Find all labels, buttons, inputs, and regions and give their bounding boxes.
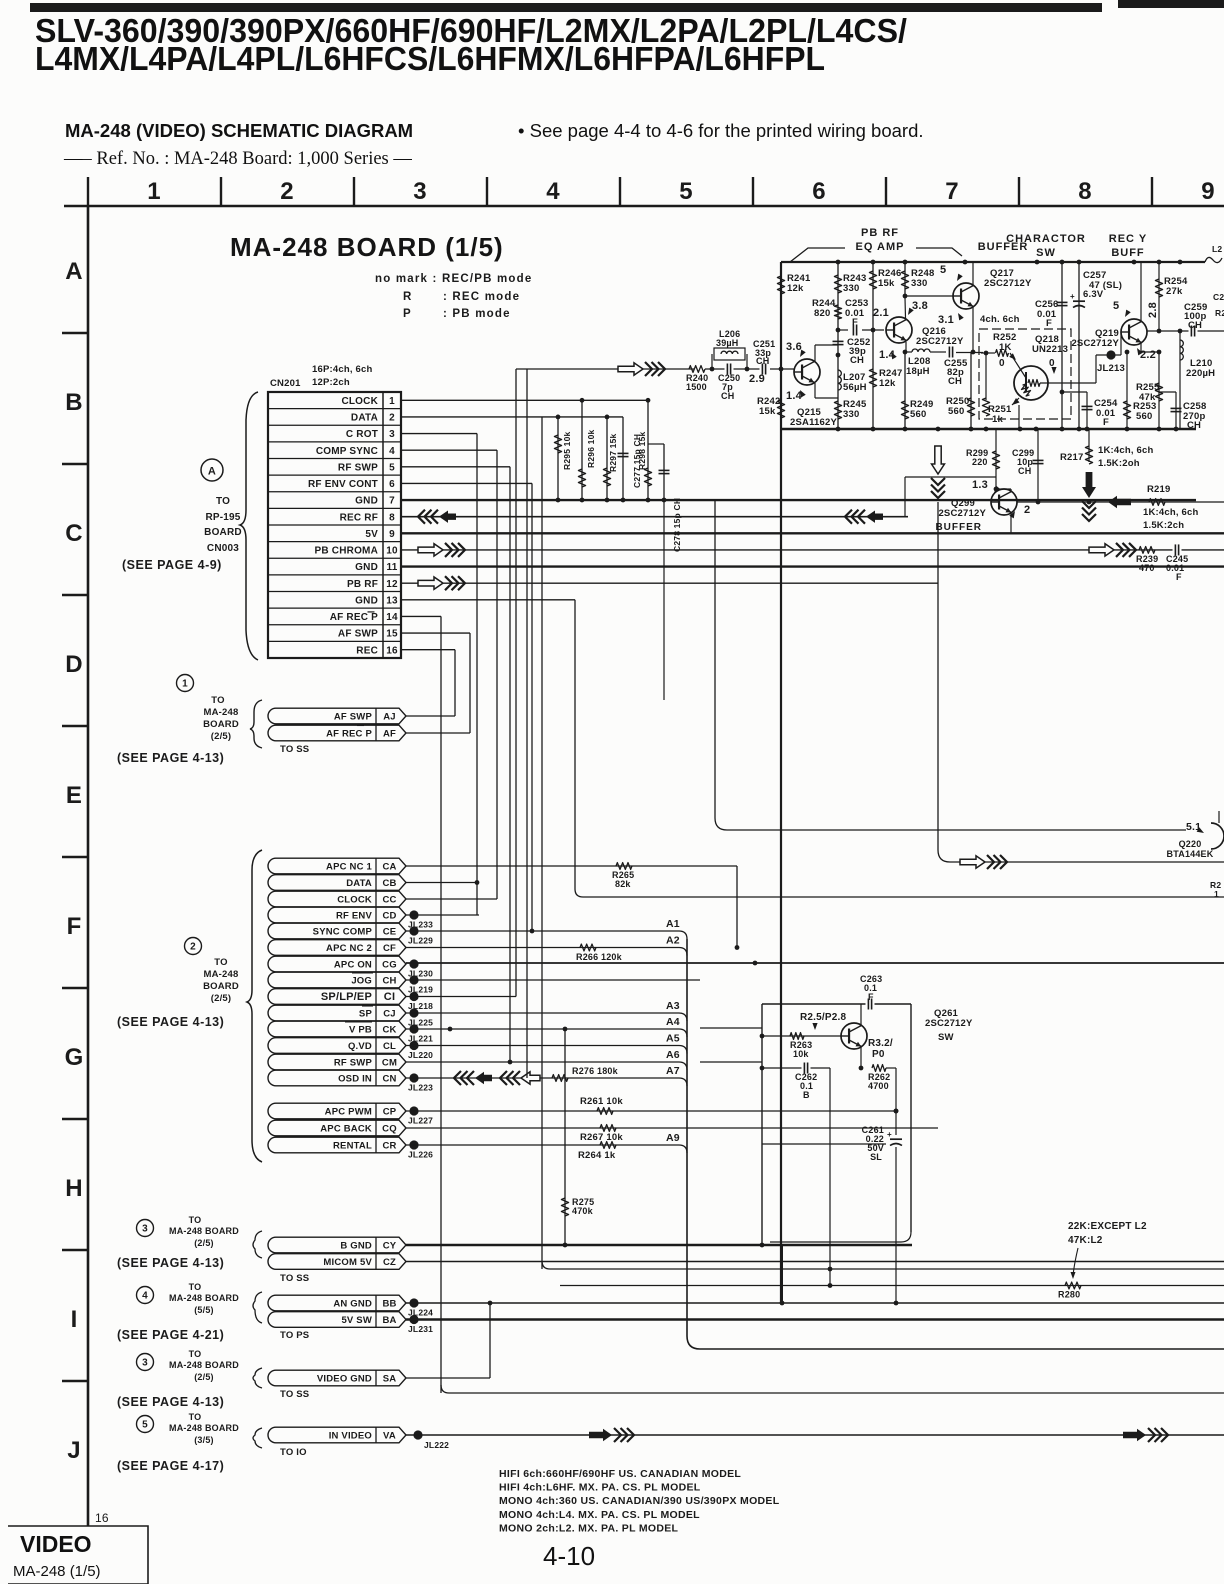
wire OSD IN CN / A7 bbox=[406, 1077, 679, 1079]
CN201 row divider 15 bbox=[268, 640, 401, 642]
wire SA vertical up bbox=[489, 1303, 491, 1378]
arrow IN VIDEO black right 2 bbox=[1123, 1429, 1146, 1441]
connector pill Q.VD CL bbox=[268, 1038, 406, 1054]
svg-text:D: D bbox=[65, 651, 83, 678]
svg-text:F: F bbox=[67, 913, 82, 940]
svg-text:2: 2 bbox=[190, 942, 196, 953]
svg-text:15k: 15k bbox=[759, 406, 776, 417]
capacitor C253 bbox=[851, 329, 860, 332]
svg-text:APC NC 1: APC NC 1 bbox=[326, 862, 372, 873]
svg-text:CG: CG bbox=[382, 960, 397, 971]
CN201 row divider 8 bbox=[268, 524, 401, 526]
row tick G/H bbox=[62, 1118, 88, 1120]
wire Q299 collector to 5V rail bbox=[1010, 513, 1012, 533]
connector pill OSD IN CN bbox=[268, 1070, 406, 1086]
resistor R248 bbox=[901, 271, 908, 289]
svg-text:CL: CL bbox=[383, 1041, 396, 1052]
inductor L206 bbox=[705, 368, 760, 370]
connector pill SYNC COMP CE bbox=[268, 923, 406, 939]
svg-text:5: 5 bbox=[940, 264, 946, 276]
svg-text:(2/5): (2/5) bbox=[194, 1238, 214, 1248]
wire RF SWP CM / A6 bbox=[406, 1061, 679, 1063]
svg-text:16: 16 bbox=[386, 645, 398, 656]
svg-text:L2: L2 bbox=[1212, 244, 1222, 254]
capacitor C277 bbox=[622, 417, 624, 500]
svg-text:CR: CR bbox=[382, 1141, 396, 1152]
svg-text:CH: CH bbox=[1187, 420, 1201, 431]
svg-text:330: 330 bbox=[911, 278, 927, 289]
svg-text:A6: A6 bbox=[666, 1049, 680, 1061]
wire video input y369 bbox=[516, 368, 694, 370]
capacitor C263 bbox=[866, 1003, 875, 1006]
svg-text:HIFI 6ch:660HF/690HF US. CANAD: HIFI 6ch:660HF/690HF US. CANADIAN MODEL bbox=[499, 1468, 741, 1480]
svg-text:(SEE PAGE 4-17): (SEE PAGE 4-17) bbox=[117, 1459, 224, 1473]
svg-text:CN: CN bbox=[382, 1074, 396, 1085]
svg-text:: REC mode: : REC mode bbox=[443, 291, 520, 303]
arrow R219 black left bbox=[1108, 496, 1131, 508]
svg-text:E: E bbox=[66, 782, 82, 809]
capacitor C259 bbox=[1189, 330, 1198, 333]
svg-text:220µH: 220µH bbox=[1186, 368, 1215, 379]
resistor R265 bbox=[616, 863, 632, 870]
resistor R275 bbox=[564, 1029, 566, 1245]
capacitor C261 electrolytic bbox=[890, 1138, 902, 1140]
jumper JL222 bbox=[413, 1430, 422, 1439]
svg-text:(2/5): (2/5) bbox=[211, 731, 232, 742]
column tick 4 bbox=[486, 177, 488, 206]
wire bus y1269 bbox=[542, 1261, 550, 1269]
svg-text:CH: CH bbox=[1188, 320, 1202, 331]
connector pill AF SWP AJ bbox=[268, 708, 406, 724]
svg-text:REC RF: REC RF bbox=[340, 512, 378, 523]
bottom left label box bbox=[8, 1526, 148, 1584]
connector pill SP/LP/EP CI bbox=[268, 989, 406, 1005]
wire RF ENV CD bbox=[406, 914, 479, 916]
arrow input outline right bbox=[618, 363, 643, 375]
svg-text:JL229: JL229 bbox=[408, 936, 433, 946]
svg-text:(3/5): (3/5) bbox=[194, 1435, 214, 1445]
svg-text:5: 5 bbox=[679, 178, 693, 205]
svg-text:2: 2 bbox=[389, 413, 395, 424]
row tick E/F bbox=[62, 856, 88, 858]
resistor R267 bbox=[600, 1125, 616, 1132]
column tick 8 bbox=[1018, 177, 1020, 206]
capacitor C255 bbox=[947, 351, 956, 354]
svg-text:2.1: 2.1 bbox=[873, 307, 889, 319]
wire bus y1393 bbox=[441, 1385, 449, 1393]
svg-text:RP-195: RP-195 bbox=[205, 512, 240, 523]
resistor R247 bbox=[869, 369, 876, 387]
svg-text:MONO 4ch:360 US. CANADIAN/390: MONO 4ch:360 US. CANADIAN/390 US/390PX M… bbox=[499, 1495, 780, 1507]
svg-text:R280: R280 bbox=[1058, 1290, 1080, 1300]
ref circle 5 group6 bbox=[137, 1416, 154, 1433]
wire vertical x762 bbox=[761, 1004, 763, 1245]
svg-text:CH: CH bbox=[948, 376, 962, 387]
svg-text:R298 15k: R298 15k bbox=[637, 431, 647, 470]
svg-text:2: 2 bbox=[1024, 504, 1030, 516]
svg-text:2SC2712Y: 2SC2712Y bbox=[984, 278, 1032, 289]
transistor Q220 partial bbox=[1211, 823, 1224, 849]
svg-text:R296 10k: R296 10k bbox=[586, 429, 596, 468]
svg-text:(5/5): (5/5) bbox=[194, 1305, 214, 1315]
svg-text:F: F bbox=[852, 317, 858, 328]
jumper JL223 bbox=[409, 1073, 418, 1082]
svg-text:8: 8 bbox=[389, 512, 395, 523]
resistor R240 bbox=[689, 366, 705, 373]
svg-text:6: 6 bbox=[812, 178, 826, 205]
wire column x873 bbox=[872, 262, 874, 429]
capacitor C258 bbox=[1171, 407, 1182, 409]
connector pill AF REC P AF bbox=[268, 725, 406, 741]
svg-text:(SEE PAGE 4-9): (SEE PAGE 4-9) bbox=[122, 558, 222, 572]
wire pin14 AF REC P bbox=[401, 615, 441, 617]
svg-text:: PB mode: : PB mode bbox=[443, 308, 511, 320]
svg-text:SW: SW bbox=[938, 1032, 954, 1043]
svg-text:(SEE PAGE 4-13): (SEE PAGE 4-13) bbox=[117, 1256, 224, 1270]
column tick 9 bbox=[1151, 177, 1153, 206]
resistor R297 bbox=[606, 417, 608, 500]
svg-text:14: 14 bbox=[386, 612, 398, 623]
resistor R243 bbox=[834, 275, 841, 293]
CN201 row divider 2 bbox=[268, 424, 401, 426]
svg-text:220: 220 bbox=[972, 457, 988, 467]
svg-text:1.3: 1.3 bbox=[972, 479, 988, 491]
connector pill APC ON CG bbox=[268, 956, 406, 972]
svg-text:5V SW: 5V SW bbox=[341, 1315, 372, 1326]
connector pill APC NC 1 CA bbox=[268, 858, 406, 874]
svg-text:R276 180k: R276 180k bbox=[572, 1066, 619, 1076]
svg-text:3.6: 3.6 bbox=[786, 341, 802, 353]
wire y502 to right bbox=[1017, 501, 1224, 503]
outline arrow down x938 bbox=[937, 502, 939, 850]
svg-text:G: G bbox=[65, 1044, 84, 1071]
svg-text:R261 10k: R261 10k bbox=[580, 1096, 623, 1107]
svg-text:MA-248 (VIDEO) SCHEMATIC DIAGR: MA-248 (VIDEO) SCHEMATIC DIAGRAM bbox=[65, 120, 413, 141]
svg-text:MONO 4ch:L4. MX. PA. CS. PL MO: MONO 4ch:L4. MX. PA. CS. PL MODEL bbox=[499, 1509, 700, 1521]
column tick 1 bbox=[87, 177, 89, 206]
resistor R242 bbox=[777, 400, 784, 418]
svg-text:TO: TO bbox=[189, 1215, 202, 1225]
wire Q261 emitter down bbox=[860, 1047, 862, 1068]
svg-text:6.3V: 6.3V bbox=[1083, 289, 1104, 300]
arrow PB CHROMA outline right far bbox=[1089, 544, 1114, 556]
svg-text:RF ENV: RF ENV bbox=[336, 911, 373, 922]
svg-text:C: C bbox=[65, 520, 83, 547]
wire AF SWP to vertical bbox=[406, 715, 455, 717]
svg-text:2: 2 bbox=[280, 178, 294, 205]
column tick 7 bbox=[885, 177, 887, 206]
svg-text:1: 1 bbox=[389, 396, 395, 407]
svg-text:C ROT: C ROT bbox=[346, 429, 378, 440]
svg-text:APC PWM: APC PWM bbox=[325, 1107, 372, 1118]
svg-text:1.5K:2ch: 1.5K:2ch bbox=[1143, 520, 1184, 531]
svg-text:no mark : REC/PB mode: no mark : REC/PB mode bbox=[375, 273, 532, 285]
wire vertical x782 lower bbox=[781, 1245, 783, 1303]
wire pin11 GND bus bbox=[401, 565, 1224, 567]
ref circle 3 group5 bbox=[137, 1354, 154, 1371]
wire vertical x516 bbox=[515, 369, 517, 997]
svg-text:MA-248: MA-248 bbox=[204, 707, 239, 718]
brace group4 bbox=[253, 1292, 262, 1323]
svg-text:CHARACTOR: CHARACTOR bbox=[1006, 233, 1086, 245]
wire pin15 AF SWP bbox=[401, 632, 470, 634]
jumper JL219 bbox=[409, 975, 418, 984]
svg-text:PB RF: PB RF bbox=[861, 227, 899, 239]
wire y830 to Q220 bbox=[715, 818, 727, 830]
resistor R276 bbox=[552, 1075, 568, 1082]
svg-text:UN2213: UN2213 bbox=[1032, 344, 1068, 355]
svg-text:R219: R219 bbox=[1147, 484, 1171, 495]
svg-text:CH: CH bbox=[721, 391, 734, 401]
svg-text:R3.2/: R3.2/ bbox=[868, 1038, 893, 1049]
svg-text:MA-248 BOARD (1/5): MA-248 BOARD (1/5) bbox=[230, 232, 504, 262]
brace group6 bbox=[253, 1428, 262, 1448]
svg-text:PB CHROMA: PB CHROMA bbox=[315, 546, 378, 557]
svg-text:SA: SA bbox=[383, 1374, 397, 1385]
wire amp left rail bbox=[780, 262, 782, 1303]
svg-text:9: 9 bbox=[389, 529, 395, 540]
svg-text:VA: VA bbox=[383, 1431, 396, 1442]
capacitor C251 bbox=[760, 368, 769, 371]
svg-text:TO: TO bbox=[216, 496, 230, 507]
resistor R263 bbox=[790, 1033, 804, 1040]
svg-text:39µH: 39µH bbox=[716, 338, 739, 348]
svg-text:SYNC COMP: SYNC COMP bbox=[313, 927, 373, 938]
connector pill CLOCK CC bbox=[268, 891, 406, 907]
svg-text:4: 4 bbox=[546, 178, 560, 205]
svg-text:B GND: B GND bbox=[340, 1241, 372, 1252]
svg-text:CH: CH bbox=[850, 355, 864, 366]
wire vertical x470 bbox=[469, 633, 471, 733]
svg-text:5V: 5V bbox=[365, 529, 378, 540]
svg-text:5: 5 bbox=[389, 462, 395, 473]
wire vertical x532 bbox=[531, 483, 533, 931]
svg-text:AF REC P: AF REC P bbox=[326, 729, 372, 740]
arrow R217 black down bbox=[1082, 472, 1096, 498]
wire column x905 bbox=[904, 262, 906, 296]
transistor Q216 bbox=[886, 317, 912, 343]
svg-text:3.8: 3.8 bbox=[912, 300, 928, 312]
svg-text:R266 120k: R266 120k bbox=[576, 952, 623, 962]
resistor R296 bbox=[581, 400, 583, 500]
svg-text:(SEE PAGE 4-13): (SEE PAGE 4-13) bbox=[117, 1015, 224, 1029]
CN201 row divider 9 bbox=[268, 541, 401, 543]
svg-text:2SC2712Y: 2SC2712Y bbox=[1071, 338, 1119, 349]
wire pin6 RF ENV CONT bbox=[401, 482, 532, 484]
wire stub RF SWP into box bbox=[700, 1061, 762, 1063]
wire SP CJ / A3 bbox=[406, 1012, 679, 1014]
svg-text:TO: TO bbox=[214, 957, 227, 968]
arrow y862 outline right bbox=[960, 856, 985, 868]
svg-text:3.1: 3.1 bbox=[938, 314, 954, 326]
svg-text:AF: AF bbox=[383, 729, 396, 740]
svg-text:GND: GND bbox=[355, 496, 378, 507]
svg-text:CK: CK bbox=[382, 1025, 396, 1036]
svg-text:56µH: 56µH bbox=[843, 382, 867, 393]
wire B GND CY bus bbox=[406, 1244, 912, 1246]
wire Q216 emitter to L208 bbox=[905, 342, 907, 352]
connector pill RF ENV CD bbox=[268, 907, 406, 923]
resistor R246 bbox=[869, 271, 876, 289]
wire column x838 bbox=[837, 262, 839, 429]
resistor R255 bbox=[1158, 352, 1160, 429]
svg-text:A7: A7 bbox=[666, 1065, 680, 1077]
transistor Q218 UN2213 bbox=[1014, 366, 1048, 400]
svg-text:EQ AMP: EQ AMP bbox=[856, 241, 905, 253]
svg-text:SL: SL bbox=[870, 1152, 882, 1162]
svg-text:2.2: 2.2 bbox=[1140, 349, 1156, 361]
wire amp bottom rail bbox=[781, 428, 1196, 430]
row tick C/D bbox=[62, 594, 88, 596]
svg-text:CH: CH bbox=[382, 976, 396, 987]
svg-text:7: 7 bbox=[945, 178, 959, 205]
resistor R253 bbox=[1126, 352, 1128, 429]
svg-text:CD: CD bbox=[382, 911, 396, 922]
svg-text:—– Ref. No. : MA-248 Board: 1,: —– Ref. No. : MA-248 Board: 1,000 Series… bbox=[63, 149, 412, 169]
svg-text:CE: CE bbox=[383, 927, 397, 938]
svg-text:R2.5/P2.8: R2.5/P2.8 bbox=[800, 1012, 847, 1023]
svg-text:1K:4ch, 6ch: 1K:4ch, 6ch bbox=[1098, 445, 1154, 456]
CN201 row divider 6 bbox=[268, 491, 401, 493]
inductor L2xx right edge bbox=[1205, 257, 1222, 262]
wire bus y1285 R280 bbox=[560, 1285, 1224, 1287]
svg-text:TO PS: TO PS bbox=[280, 1330, 309, 1341]
wire vertical x664 below bus bbox=[663, 500, 665, 700]
svg-text:REC: REC bbox=[356, 645, 378, 656]
row tick H/I bbox=[62, 1249, 88, 1251]
wire Q217 collector/emitter bbox=[972, 262, 974, 285]
svg-text:TO: TO bbox=[211, 695, 224, 706]
connector pill AN GND BB bbox=[268, 1295, 406, 1311]
transistor Q219 bbox=[1121, 319, 1147, 345]
svg-text:MONO 2ch:L2. MX. PA. PL MODEL: MONO 2ch:L2. MX. PA. PL MODEL bbox=[499, 1522, 679, 1534]
arrow left on REC RF at x840 bbox=[858, 510, 865, 524]
svg-text:AF SWP: AF SWP bbox=[338, 629, 378, 640]
svg-text:560: 560 bbox=[910, 409, 926, 420]
resistor R239 bbox=[1139, 547, 1155, 554]
svg-text:4: 4 bbox=[142, 1291, 148, 1302]
resistor R241 bbox=[777, 276, 784, 294]
capacitor C278 bbox=[648, 443, 664, 445]
resistor R251 bbox=[985, 353, 987, 400]
wire Q219 collector emitter bbox=[1140, 262, 1142, 321]
CN201 row divider 7 bbox=[268, 507, 401, 509]
svg-text:3: 3 bbox=[413, 178, 427, 205]
svg-text:CLOCK: CLOCK bbox=[341, 396, 378, 407]
svg-text:CN201: CN201 bbox=[270, 378, 301, 389]
ref circle A bbox=[201, 459, 223, 481]
svg-text:CN003: CN003 bbox=[207, 543, 239, 554]
wire vertical x542 bbox=[541, 417, 543, 1269]
CN201 row divider 14 bbox=[268, 624, 401, 626]
wire CLOCK CC bbox=[406, 898, 497, 900]
column tick 6 bbox=[752, 177, 754, 206]
wire vertical x497 bbox=[496, 450, 498, 899]
svg-text:MA-248: MA-248 bbox=[204, 969, 239, 980]
resistor R250 bbox=[967, 398, 974, 416]
connector pill MICOM 5V CZ bbox=[268, 1254, 406, 1270]
CN201 row divider 5 bbox=[268, 474, 401, 476]
resistor R298 bbox=[647, 400, 649, 500]
svg-text:4: 4 bbox=[389, 446, 395, 457]
svg-text:F: F bbox=[1103, 417, 1109, 428]
wire RENTAL CR / A9 bbox=[406, 1144, 679, 1146]
transistor Q217 bbox=[953, 283, 979, 309]
jumper JL230 bbox=[409, 959, 418, 968]
jumper JL226 bbox=[409, 1140, 418, 1149]
connector pill 5V SW BA bbox=[268, 1312, 406, 1328]
svg-text:R217: R217 bbox=[1060, 452, 1084, 463]
ref circle 3 group3 bbox=[137, 1220, 154, 1237]
arrow pin12 outline right bbox=[418, 577, 443, 589]
jumper JL218 bbox=[409, 992, 418, 1001]
svg-text:C278 15p CH: C278 15p CH bbox=[672, 498, 682, 552]
svg-text:BOARD: BOARD bbox=[204, 527, 242, 538]
svg-text:RF ENV CONT: RF ENV CONT bbox=[308, 479, 378, 490]
jumper JL231 bbox=[409, 1315, 418, 1324]
wire R2.5/P2.8 base wire bbox=[762, 1035, 841, 1037]
svg-text:A9: A9 bbox=[666, 1132, 680, 1144]
svg-text:APC NC 2: APC NC 2 bbox=[326, 943, 372, 954]
wire pin12 PB RF bbox=[401, 582, 938, 584]
capacitor C262 bbox=[762, 1067, 830, 1069]
resistor R249 bbox=[901, 401, 908, 419]
connector pill APC PWM CP bbox=[268, 1103, 406, 1119]
svg-text:PB RF: PB RF bbox=[347, 579, 378, 590]
resistor R262 bbox=[872, 1065, 886, 1072]
svg-text:TO SS: TO SS bbox=[280, 1389, 309, 1400]
svg-text:13: 13 bbox=[386, 595, 398, 606]
svg-text:Q.VD: Q.VD bbox=[348, 1041, 372, 1052]
svg-text:APC ON: APC ON bbox=[334, 960, 372, 971]
resistor R280 bbox=[1065, 1282, 1081, 1289]
wire vertical x510 bbox=[509, 467, 511, 1062]
wire pin5 RF SWP bbox=[401, 466, 510, 468]
svg-text:8: 8 bbox=[1078, 178, 1092, 205]
wire Q218 emitter down bbox=[1018, 405, 1020, 429]
column tick 5 bbox=[619, 177, 621, 206]
svg-text:P0: P0 bbox=[872, 1049, 885, 1060]
wire SP/LP/EP CI bbox=[406, 996, 516, 998]
wire pin1 CLOCK bbox=[401, 399, 648, 401]
svg-text:18µH: 18µH bbox=[906, 366, 930, 377]
svg-text:RF SWP: RF SWP bbox=[334, 1058, 373, 1069]
resistor R261 bbox=[597, 1108, 613, 1115]
wire AN GND BB bus bbox=[406, 1302, 1224, 1304]
svg-text:DATA: DATA bbox=[346, 878, 372, 889]
svg-text:1k: 1k bbox=[992, 414, 1003, 425]
inductor L210 bbox=[1179, 331, 1181, 429]
svg-text:CM: CM bbox=[382, 1058, 397, 1069]
svg-text:TO: TO bbox=[189, 1282, 202, 1292]
row tick I/J bbox=[62, 1380, 88, 1382]
brace group3 bbox=[253, 1231, 262, 1258]
svg-text:MA-248 BOARD: MA-248 BOARD bbox=[169, 1226, 239, 1236]
svg-text:(SEE PAGE 4-13): (SEE PAGE 4-13) bbox=[117, 1395, 224, 1409]
svg-text:A4: A4 bbox=[666, 1016, 680, 1028]
connector pill APC NC 2 CF bbox=[268, 940, 406, 956]
svg-text:JOG: JOG bbox=[351, 976, 372, 987]
svg-text:SW: SW bbox=[1036, 247, 1056, 259]
svg-text:1: 1 bbox=[1214, 889, 1219, 899]
svg-text:330: 330 bbox=[843, 283, 859, 294]
svg-text:CI: CI bbox=[384, 991, 395, 1003]
svg-text:RF SWP: RF SWP bbox=[338, 462, 378, 473]
svg-text:P: P bbox=[403, 308, 412, 320]
svg-text:(SEE PAGE 4-13): (SEE PAGE 4-13) bbox=[117, 751, 224, 765]
svg-text:H: H bbox=[65, 1175, 83, 1202]
svg-text:2.9: 2.9 bbox=[749, 373, 765, 385]
